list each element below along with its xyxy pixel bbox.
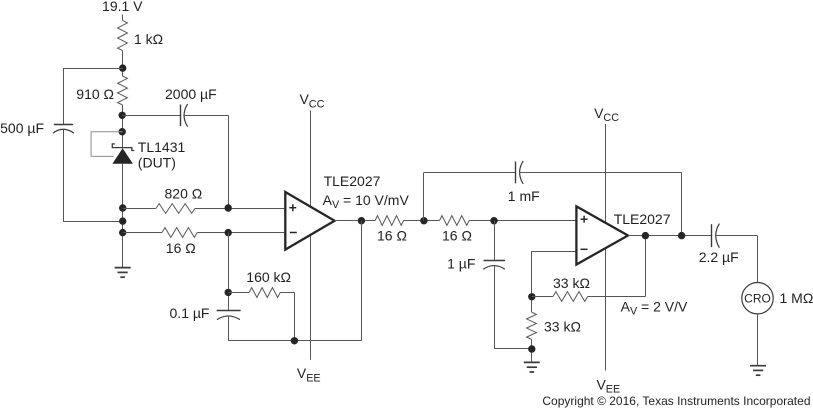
capacitor 500 &#181;F (53, 125, 74, 134)
svg-text:1 kΩ: 1 kΩ (134, 31, 163, 47)
label 33 kΩ ground value (544, 319, 581, 335)
wire (469, 220, 575, 222)
svg-text:2.2 µF: 2.2 µF (699, 249, 739, 265)
wire (197, 232, 285, 234)
wire (123, 232, 162, 234)
svg-text:19.1 V: 19.1 V (102, 0, 143, 14)
wire feedback bottom (228, 340, 361, 342)
wire (63, 68, 123, 70)
label 1 kΩ value (134, 31, 163, 47)
label 1 µF value (447, 256, 475, 272)
wire (681, 172, 683, 235)
wire (122, 105, 124, 148)
svg-text:16 Ω: 16 Ω (166, 240, 196, 256)
ground op-amp2 (524, 362, 540, 372)
node opamp1 plus input (225, 204, 232, 211)
svg-text:TLE2027: TLE2027 (324, 173, 381, 189)
svg-text:TL1431: TL1431 (138, 139, 186, 155)
wire VEE opamp2 (605, 249, 607, 371)
label 16 Ω value (166, 240, 196, 256)
label 2.2 µF value (699, 249, 739, 265)
wire VEE opamp1 (310, 234, 312, 360)
node left-branch return (119, 217, 126, 224)
svg-text:CC: CC (603, 112, 619, 124)
wire (335, 220, 376, 222)
node ground join (528, 345, 535, 352)
node 1uF tap (490, 217, 497, 224)
op-amp U2 TLE2027 (576, 206, 628, 264)
wire (645, 236, 647, 297)
wire (123, 208, 156, 210)
svg-text:CC: CC (309, 99, 325, 111)
node 2000uF tap (119, 112, 126, 119)
op-amp U1 TLE2027 (285, 192, 334, 250)
node opamp1 output (358, 217, 365, 224)
wire (228, 115, 230, 208)
resistor 16 &#937; third (440, 216, 470, 226)
wire (122, 115, 180, 117)
label Av = 2 V/V (621, 299, 688, 318)
label (DUT) (138, 155, 176, 171)
label 16 Ω value second (377, 228, 407, 244)
svg-text:910 Ω: 910 Ω (76, 86, 114, 102)
svg-text:500 µF: 500 µF (0, 120, 44, 136)
diode TL1431 cathode bar (112, 144, 134, 151)
label VCC opamp1 (300, 91, 325, 111)
node 16ohm tap (119, 229, 126, 236)
wire (628, 235, 712, 237)
wire (122, 15, 124, 21)
resistor 33 k&#937; feedback (553, 292, 588, 302)
svg-text:(DUT): (DUT) (138, 155, 176, 171)
resistor 820 &#937; (156, 204, 195, 214)
label VEE opamp2 (597, 377, 621, 396)
resistor 33 k&#937; to ground (527, 312, 537, 339)
label 2000 µF value (165, 86, 217, 102)
svg-text:1 mF: 1 mF (508, 188, 540, 204)
capacitor 2000 &#181;F (181, 104, 188, 127)
wire (588, 296, 645, 298)
svg-text:1 MΩ: 1 MΩ (780, 290, 813, 306)
wire (63, 68, 65, 124)
svg-text:820 Ω: 820 Ω (165, 186, 203, 202)
resistor 910 &#937; (118, 76, 128, 105)
wire (532, 251, 576, 253)
wire (361, 221, 363, 341)
node 33k junction (528, 293, 535, 300)
label copyright (542, 394, 810, 408)
label 820 Ω value (165, 186, 203, 202)
wire (184, 115, 228, 117)
node ref loop tap (119, 128, 126, 135)
ground CRO (750, 366, 766, 376)
svg-text:1 µF: 1 µF (447, 256, 475, 272)
capacitor 1 mF (516, 161, 524, 184)
wire (424, 172, 516, 174)
node 160k/0.1uF (225, 289, 232, 296)
wire (494, 348, 532, 350)
node 19.1 V supply label (102, 0, 143, 14)
capacitor 0.1 &#181;F (217, 311, 241, 320)
svg-text:160 kΩ: 160 kΩ (246, 269, 291, 285)
node feedback join (291, 337, 298, 344)
svg-text:TLE2027: TLE2027 (614, 211, 671, 227)
wire (757, 314, 759, 366)
node 1mF tap (678, 232, 685, 239)
wire (122, 51, 124, 76)
svg-text:33 kΩ: 33 kΩ (553, 275, 590, 291)
svg-text:16 Ω: 16 Ω (377, 228, 407, 244)
capacitor 1 &#181;F (483, 261, 505, 270)
transistor TL1431 shunt regulator triangle (112, 148, 132, 164)
resistor 16 &#937; second (375, 216, 404, 226)
svg-text:CRO: CRO (744, 292, 771, 306)
wire ref loop (91, 132, 123, 157)
node feedback tap opamp2 (642, 232, 649, 239)
resistor 160 k&#937; (249, 288, 280, 298)
wire VCC opamp2 (605, 124, 607, 222)
label 0.1 µF value (170, 305, 210, 321)
label 160 kΩ value (246, 269, 291, 285)
label VEE opamp1 (297, 365, 321, 385)
resistor 1 k&#937; (118, 20, 128, 50)
ground main rail (115, 268, 131, 278)
label 1 MΩ load (780, 290, 813, 306)
wire (715, 235, 757, 237)
capacitor 2.2 &#181;F (712, 224, 720, 248)
resistor 16 &#937; (162, 228, 197, 238)
node junction top (119, 64, 126, 71)
wire (228, 292, 249, 294)
label TLE2027 U2 (614, 211, 671, 227)
label 1 mF value (508, 188, 540, 204)
wire (532, 296, 553, 298)
wire (404, 220, 440, 222)
wire (494, 266, 496, 349)
wire (531, 339, 533, 362)
label 33 kΩ feedback value (553, 275, 590, 291)
wire (531, 251, 533, 312)
instrument CRO oscilloscope (742, 283, 773, 314)
node 820ohm tap (119, 204, 126, 211)
wire (494, 221, 496, 261)
node A between 16 ohm resistors (420, 217, 427, 224)
wire (195, 208, 285, 210)
label 500 µF value (0, 120, 44, 136)
label TLE2027 U1 (324, 173, 381, 189)
svg-text:33 kΩ: 33 kΩ (544, 319, 581, 335)
wire (757, 236, 759, 283)
wire (228, 233, 230, 310)
wire (519, 172, 681, 174)
label 910 Ω value (76, 86, 114, 102)
wire (423, 172, 425, 220)
node opamp1 minus input (225, 229, 232, 236)
wire (122, 164, 124, 268)
svg-text:0.1 µF: 0.1 µF (170, 305, 210, 321)
svg-text:Copyright © 2016, Texas Instru: Copyright © 2016, Texas Instruments Inco… (542, 394, 810, 408)
label VCC opamp2 (594, 105, 619, 124)
label Av = 10 V/mV (323, 192, 410, 211)
wire (294, 292, 296, 340)
label TL1431 (138, 139, 186, 155)
wire VCC opamp1 (310, 111, 312, 208)
svg-text:16 Ω: 16 Ω (442, 228, 472, 244)
label 16 Ω value third (442, 228, 472, 244)
wire (63, 130, 65, 222)
svg-text:EE: EE (306, 373, 320, 385)
wire (228, 316, 230, 341)
wire (63, 221, 123, 223)
svg-text:2000 µF: 2000 µF (165, 86, 217, 102)
wire (280, 292, 294, 294)
